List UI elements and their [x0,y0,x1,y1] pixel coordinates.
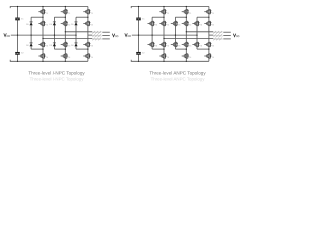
svg-text:Three-level I-NPC Topology: Three-level I-NPC Topology [30,76,85,81]
svg-text:Three-level ANPC Topology: Three-level ANPC Topology [149,71,206,76]
svg-text:Three-level ANPC Topology: Three-level ANPC Topology [151,76,206,81]
svg-text:Three-level I-NPC Topology: Three-level I-NPC Topology [28,71,85,76]
